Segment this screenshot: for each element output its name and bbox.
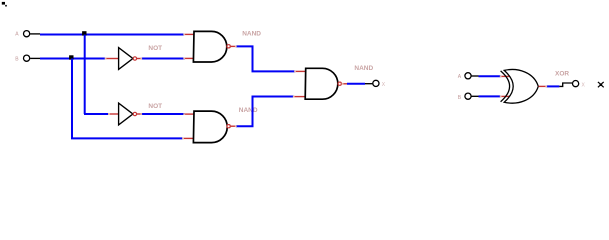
wire NAND2 output [236,97,294,127]
NAND gate U3 [193,31,230,62]
terminal B2 [465,93,479,99]
wire joint dots [105,34,547,140]
pin NAND3 output [342,83,347,85]
junction A [82,31,86,35]
pin NAND3 input 2 [294,96,306,98]
stub terminal X2 [559,83,572,86]
pin NOT1 output [137,58,142,60]
svg-text:NAND: NAND [239,107,258,114]
wire NAND1 output [236,46,295,71]
wire B horizontal [40,58,105,60]
junction B [69,55,73,59]
stub terminal X [365,83,372,85]
wire A vertical [84,35,86,115]
wire B2 [479,95,501,97]
pin NAND1 output [231,45,236,47]
pin NAND3 input 1 [296,70,306,72]
svg-text:NOT: NOT [148,45,162,52]
NAND gate U5 [305,68,341,99]
anchor handle [598,82,604,87]
NAND gate U4 [193,111,230,143]
pin XOR input 1 [501,75,510,77]
wire NOT2 to NAND2 [142,113,186,115]
terminal A [24,31,41,37]
svg-text:NOT: NOT [148,103,162,110]
terminal B [24,55,41,61]
cursor mark top-left [2,2,7,7]
pin NAND1 input 1 [185,33,194,35]
XOR gate U6 [501,69,539,103]
wire NAND3 to X [347,83,365,85]
wire B vertical [71,59,73,139]
terminal A2 [465,73,479,79]
pin NOT2 output [137,113,142,115]
wire A to NOT2 [84,113,108,115]
wire NOT1 to NAND1 [142,58,186,60]
svg-text:XOR: XOR [555,71,569,78]
wire A2 [479,75,501,77]
pin NAND2 input B [184,137,194,139]
pin XOR input 2 [501,95,510,97]
pin NAND2 input 1 [185,113,194,115]
wire B to NAND2 [71,137,183,139]
svg-text:NAND: NAND [242,31,261,38]
NOT gate U1 [119,48,137,70]
svg-text:NAND: NAND [354,65,373,72]
pin NAND2 output [231,125,236,127]
terminal X2 [573,81,579,87]
pin NOT2 input [110,113,119,115]
pin NAND1 input 2 [185,57,194,59]
pin XOR output [539,85,547,87]
wire XOR to X2 [546,85,559,87]
wire A horizontal [40,34,184,36]
terminal X [373,80,379,86]
NOT gate U2 [119,103,137,125]
pin NOT1 input [106,58,119,60]
